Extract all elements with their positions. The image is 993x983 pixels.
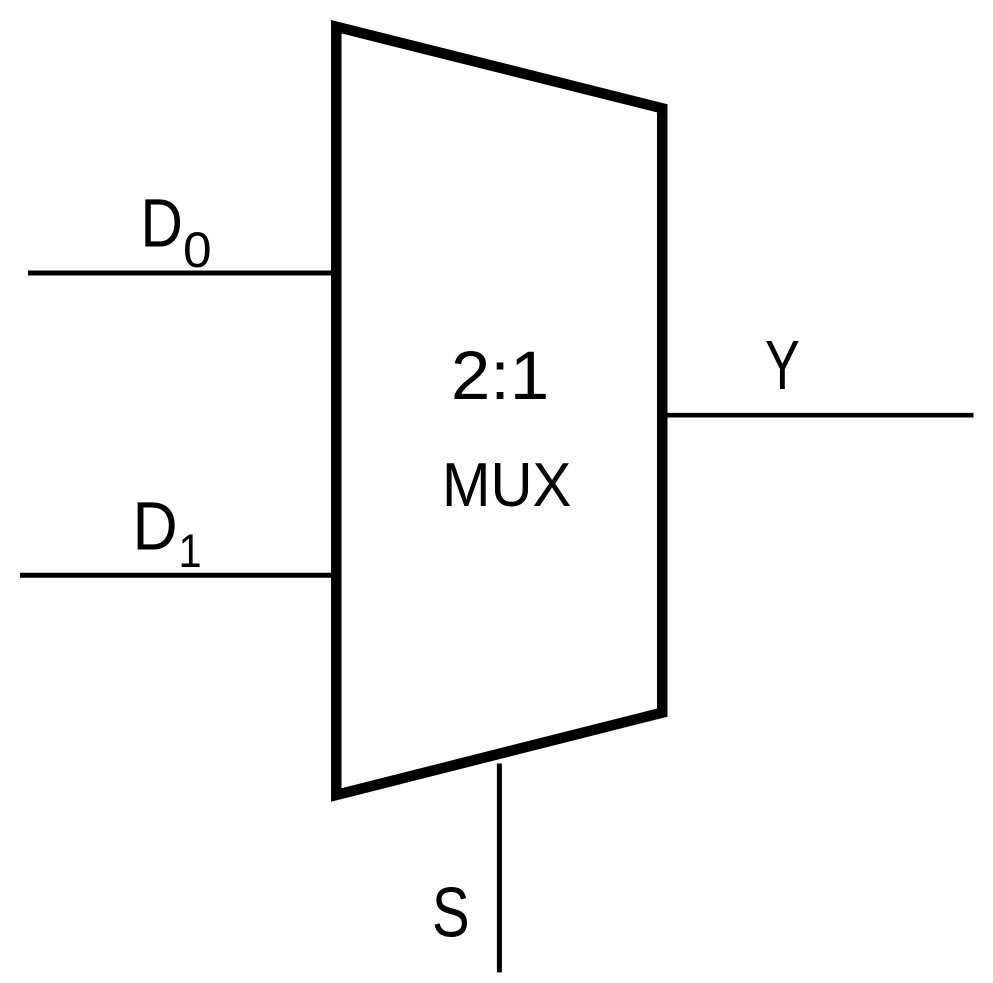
svg-text:0: 0 <box>183 221 212 278</box>
svg-text:MUX: MUX <box>442 451 571 520</box>
svg-text:2:1: 2:1 <box>451 337 549 414</box>
svg-text:D: D <box>141 183 183 261</box>
wire D0 input <box>28 271 336 276</box>
wire Y output <box>662 413 974 418</box>
wire S select <box>497 764 502 973</box>
mux U1 body (2:1 multiplexer trapezoid) <box>336 27 662 795</box>
svg-text:S: S <box>432 873 470 952</box>
svg-text:1: 1 <box>179 524 202 577</box>
svg-text:Y: Y <box>765 326 800 404</box>
svg-text:D: D <box>133 488 178 564</box>
wire D1 input <box>20 573 336 578</box>
